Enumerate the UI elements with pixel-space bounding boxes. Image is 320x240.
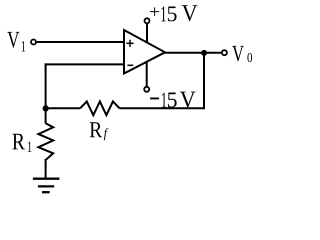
label -15V minus [150,98,159,100]
label V1 [7,32,19,48]
wire R1 bottom to ground [45,159,47,179]
op-amp minus input symbol [127,64,133,66]
op-amp U1 [124,30,165,74]
label V0 subscript [247,53,252,62]
wire V1 input to op-amp non-inverting input [37,41,124,43]
wire vertical from inverting input down to node A [45,63,47,123]
label +15V [150,7,159,16]
ground [33,179,60,193]
resistor R1 [38,123,53,160]
label Rf subscript [104,128,109,140]
wire negative supply pin [146,62,148,87]
label -15V [162,93,166,108]
wire feedback right segment [120,107,205,109]
terminal circle V0 [222,50,227,55]
output node junction dot [201,50,207,56]
wire op-amp output to V0 terminal [164,52,221,54]
terminal circle V1 [31,40,36,45]
label R1 [12,134,25,150]
wire feedback vertical up to output node [203,53,205,110]
terminal circle -15V [144,87,149,92]
label V1 subscript [22,41,25,51]
op-amp plus input symbol [126,40,133,47]
wire inverting input horizontal [45,63,124,65]
label R1 subscript [28,142,31,152]
label Rf [90,122,103,137]
terminal circle +15V [145,18,150,23]
node A junction dot [43,105,49,111]
label V0 [232,46,244,62]
resistor Rf [80,101,119,115]
wire feedback left segment [46,107,81,109]
wire positive supply pin [146,24,148,43]
